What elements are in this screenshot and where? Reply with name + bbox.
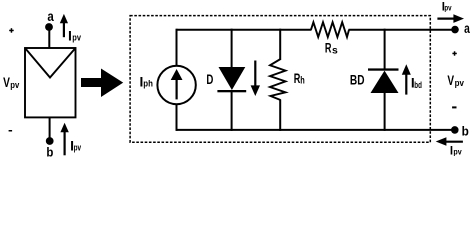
svg-text:pv: pv <box>10 80 20 91</box>
minus sign (right) <box>452 106 456 108</box>
current source arrow (pointing up) <box>171 69 183 99</box>
Ipv arrow (top right, pointing right) <box>437 14 464 23</box>
diode D cathode bar <box>217 90 246 92</box>
Ipv arrow (top left, pointing up) <box>60 14 68 37</box>
svg-text:s: s <box>332 44 338 56</box>
svg-text:a: a <box>464 20 470 36</box>
label Vpv (left) <box>3 74 20 91</box>
label Rs <box>325 41 338 57</box>
svg-text:V: V <box>3 74 10 90</box>
svg-text:D: D <box>206 72 213 87</box>
Ipv arrow (bottom left, pointing up) <box>60 123 68 156</box>
label Vpv (right) <box>447 72 464 89</box>
node a (model output, right) <box>451 26 459 34</box>
label Iph <box>140 74 154 89</box>
resistor Rh branch: upper wire <box>279 29 281 60</box>
top wire (Rs to node a) <box>349 29 456 31</box>
resistor Rh branch: lower wire <box>279 100 281 131</box>
label Ipv (top left) <box>68 27 82 43</box>
label Ipv (bottom right) <box>450 146 462 158</box>
svg-text:pv: pv <box>453 148 462 157</box>
plus sign (right) <box>452 51 456 55</box>
svg-text:bd: bd <box>414 80 422 91</box>
top wire (current source to Rs) <box>177 29 312 31</box>
diode D branch: lower wire <box>231 92 233 131</box>
PV module chevron <box>25 48 76 78</box>
diode BD triangle (pointing up) <box>371 71 399 93</box>
svg-text:a: a <box>47 8 54 24</box>
label Ibd <box>411 76 422 91</box>
minus sign (left) <box>9 130 13 132</box>
label Rh <box>294 71 305 87</box>
svg-text:R: R <box>325 41 332 57</box>
node a (left PV symbol terminal) <box>45 23 53 31</box>
bottom wire (current source to node b) <box>177 129 456 131</box>
diode BD branch: lower wire <box>384 92 386 131</box>
svg-text:V: V <box>447 72 454 88</box>
diode D branch: upper wire <box>231 29 233 68</box>
svg-text:b: b <box>462 124 469 139</box>
block arrow (PV symbol to model) <box>81 69 123 98</box>
svg-text:pv: pv <box>74 143 82 154</box>
svg-text:pv: pv <box>444 4 452 13</box>
current source circle U-Iph <box>157 66 195 104</box>
Ipv arrow (bottom right, pointing left) <box>436 137 463 146</box>
resistor Rh zigzag <box>270 59 286 100</box>
wire (node a to PV rectangle top) <box>48 27 50 48</box>
svg-text:ph: ph <box>143 78 153 89</box>
label Ipv (bottom left) <box>70 137 81 153</box>
bypass diode BD branch: upper wire <box>384 29 386 69</box>
PV module rectangle <box>25 48 76 117</box>
diode D triangle <box>219 67 246 90</box>
svg-text:BD: BD <box>350 73 365 88</box>
svg-text:pv: pv <box>72 33 81 44</box>
wire (PV rectangle bottom to node b) <box>49 117 51 141</box>
node b (model output, right) <box>451 126 459 134</box>
diode BD cathode bar <box>368 68 399 70</box>
svg-text:b: b <box>46 144 53 159</box>
svg-text:pv: pv <box>455 78 465 89</box>
label Ipv (top right) <box>442 1 452 13</box>
dashed model boundary box <box>130 16 430 143</box>
current source Iph branch: upper wire <box>176 29 178 67</box>
node b (left PV symbol terminal) <box>46 137 54 145</box>
diode current arrow (pointing down) <box>251 61 260 97</box>
resistor Rs (series, in top wire) <box>311 22 349 37</box>
Ibd arrow (pointing up) <box>402 64 411 94</box>
svg-text:h: h <box>300 75 305 87</box>
svg-text:I: I <box>68 27 72 43</box>
current source branch: lower wire <box>176 104 178 131</box>
plus sign (left) <box>9 28 14 33</box>
